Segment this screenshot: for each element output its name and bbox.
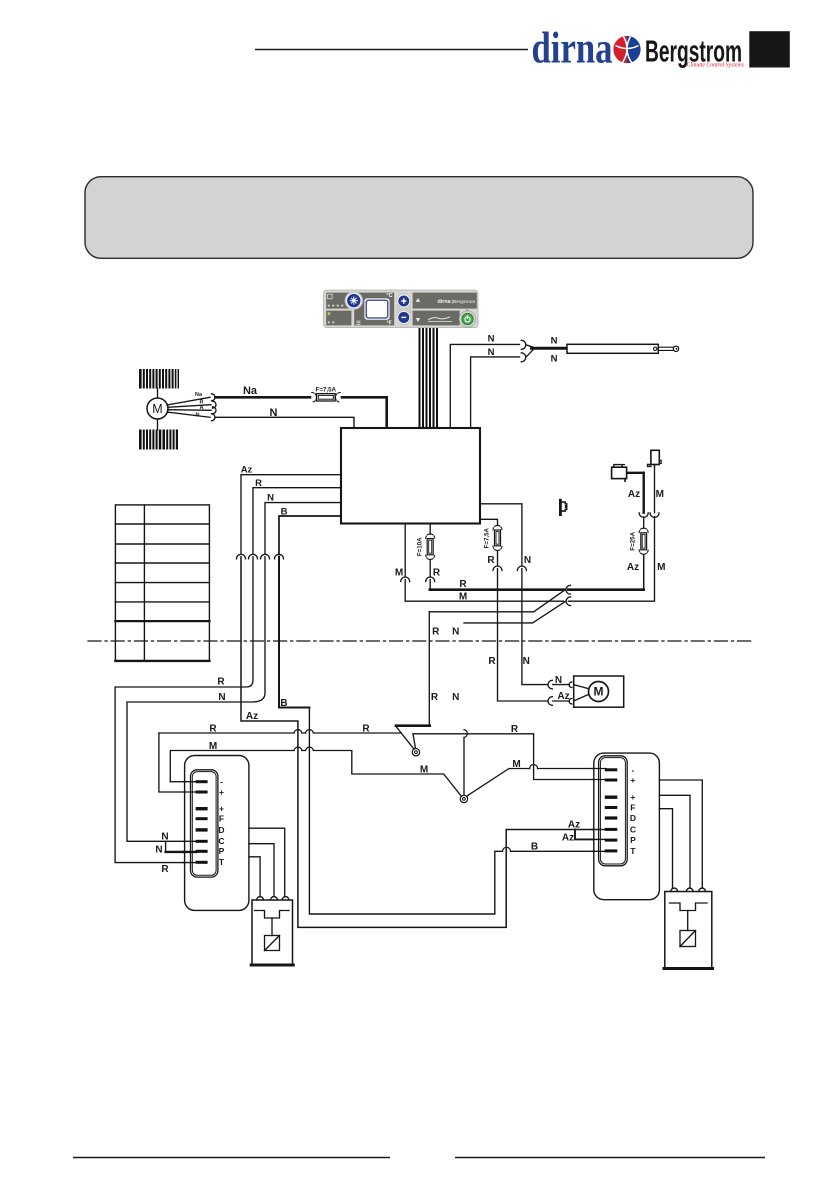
svg-text:B: B bbox=[281, 506, 288, 517]
svg-text:F=10A: F=10A bbox=[416, 537, 423, 556]
svg-text:T: T bbox=[630, 846, 636, 856]
svg-text:B: B bbox=[531, 842, 538, 853]
svg-text:P: P bbox=[630, 835, 636, 845]
svg-text:Az: Az bbox=[628, 489, 640, 500]
svg-text:B: B bbox=[280, 698, 287, 709]
svg-text:dirna: dirna bbox=[438, 299, 452, 305]
svg-text:+: + bbox=[219, 787, 224, 797]
svg-text:N: N bbox=[524, 555, 531, 566]
svg-text:R: R bbox=[431, 692, 439, 703]
svg-text:Climate Control Systems: Climate Control Systems bbox=[687, 63, 745, 69]
svg-text:M: M bbox=[152, 402, 162, 416]
svg-text:N: N bbox=[270, 407, 278, 419]
svg-text:P: P bbox=[219, 846, 225, 856]
svg-text:N: N bbox=[488, 334, 495, 345]
svg-text:N: N bbox=[161, 832, 168, 843]
svg-text:+: + bbox=[219, 804, 224, 814]
svg-text:Na: Na bbox=[243, 385, 258, 397]
svg-text:N: N bbox=[488, 347, 495, 358]
svg-text:N: N bbox=[218, 692, 225, 703]
svg-text:D: D bbox=[218, 825, 224, 835]
svg-text:F: F bbox=[630, 802, 635, 812]
svg-text:C: C bbox=[218, 836, 224, 846]
svg-text:N: N bbox=[551, 336, 558, 347]
svg-text:N: N bbox=[155, 844, 162, 855]
svg-text:-: - bbox=[220, 777, 223, 787]
svg-text:Az: Az bbox=[568, 820, 580, 831]
svg-text:M: M bbox=[657, 562, 665, 573]
svg-text:R: R bbox=[433, 568, 441, 579]
svg-text:R: R bbox=[488, 656, 496, 667]
svg-text:N: N bbox=[195, 412, 199, 418]
svg-text:T: T bbox=[219, 857, 225, 867]
svg-text:N: N bbox=[267, 493, 274, 504]
svg-text:-: - bbox=[631, 765, 634, 775]
svg-text:M: M bbox=[459, 592, 467, 603]
svg-text:M: M bbox=[512, 759, 520, 770]
svg-text:Az: Az bbox=[246, 711, 258, 722]
svg-text:N: N bbox=[555, 675, 562, 686]
svg-text:C: C bbox=[630, 824, 636, 834]
svg-text:D: D bbox=[630, 813, 636, 823]
svg-text:M: M bbox=[395, 568, 403, 579]
svg-text:F: F bbox=[219, 814, 224, 824]
svg-text:M: M bbox=[594, 685, 604, 699]
svg-text:F=7,5A: F=7,5A bbox=[483, 527, 490, 548]
svg-text:°F: °F bbox=[387, 320, 392, 326]
svg-text:R: R bbox=[217, 677, 225, 688]
svg-text:Az: Az bbox=[557, 691, 569, 702]
svg-text:Az: Az bbox=[241, 465, 253, 476]
svg-text:°C: °C bbox=[386, 293, 392, 299]
svg-text:N: N bbox=[452, 626, 459, 637]
svg-text:M: M bbox=[420, 764, 428, 775]
svg-text:)Bergstrom: )Bergstrom bbox=[452, 299, 476, 304]
svg-text:F=7,5A: F=7,5A bbox=[316, 387, 337, 394]
svg-text:A: A bbox=[199, 405, 203, 411]
svg-text:M: M bbox=[209, 741, 217, 752]
svg-text:N: N bbox=[551, 354, 558, 365]
svg-text:R: R bbox=[511, 724, 519, 735]
svg-text:M: M bbox=[656, 489, 664, 500]
svg-text:R: R bbox=[459, 579, 467, 590]
svg-text:R: R bbox=[209, 723, 217, 734]
svg-text:R: R bbox=[487, 555, 495, 566]
svg-text:Az: Az bbox=[627, 562, 639, 573]
svg-text:F=25A: F=25A bbox=[630, 531, 637, 550]
svg-text:+: + bbox=[630, 792, 635, 802]
svg-text:Az: Az bbox=[562, 833, 574, 844]
svg-text:N: N bbox=[452, 692, 459, 703]
svg-text:R: R bbox=[432, 626, 440, 637]
svg-text:dirna: dirna bbox=[532, 24, 613, 73]
svg-text:R: R bbox=[362, 723, 370, 734]
svg-text:Na: Na bbox=[195, 392, 203, 398]
svg-text:+: + bbox=[630, 775, 635, 785]
svg-text:N: N bbox=[523, 656, 530, 667]
svg-text:R: R bbox=[161, 864, 169, 875]
svg-text:R: R bbox=[255, 478, 262, 489]
